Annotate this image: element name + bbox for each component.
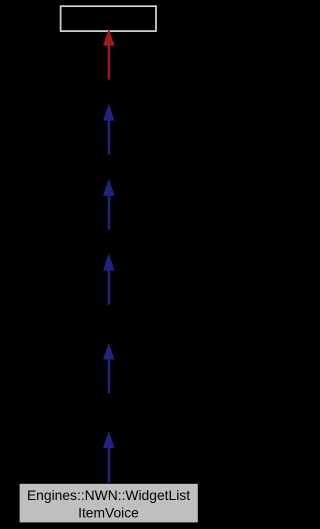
svg-text:ItemVoice: ItemVoice <box>78 505 139 521</box>
svg-text:Engines::NWN::WidgetList: Engines::NWN::WidgetList <box>27 487 190 503</box>
